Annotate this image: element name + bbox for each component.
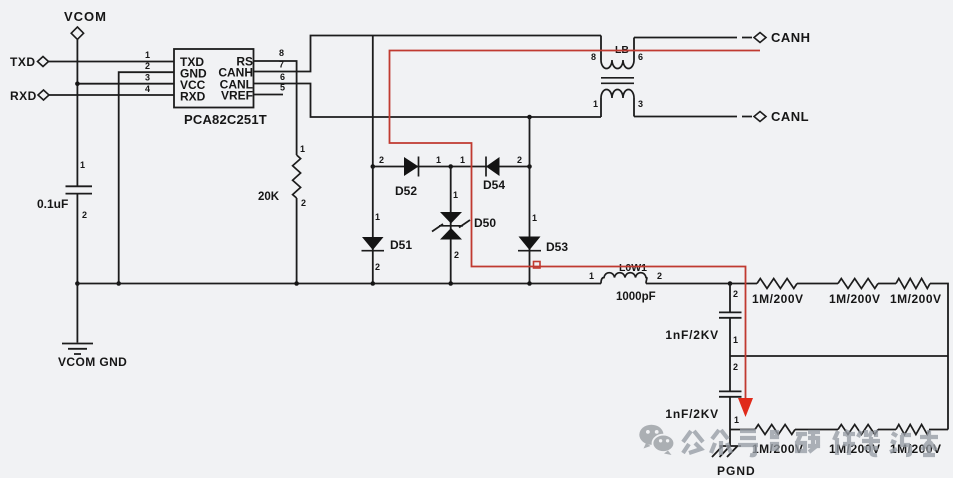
- pin number 2: [145, 61, 150, 71]
- resistor R4 value 1M/200V: [890, 292, 942, 306]
- svg-text:4: 4: [145, 84, 150, 94]
- svg-text:VREF: VREF: [221, 89, 253, 103]
- wire D53 branch: [529, 117, 531, 284]
- pin number 2 of C3: [733, 362, 738, 372]
- wire bottom rail R5-R6: [795, 429, 838, 431]
- svg-text:1: 1: [80, 160, 85, 170]
- svg-text:8: 8: [591, 52, 596, 62]
- pin number 1 of D51: [375, 212, 380, 222]
- svg-text:RXD: RXD: [180, 90, 206, 104]
- node CANL terminal diamond: [754, 112, 766, 122]
- junction D51 rail: [371, 281, 376, 286]
- svg-text:VCOM: VCOM: [64, 9, 107, 24]
- capacitor C3 value 1nF/2KV: [665, 407, 719, 421]
- node TXD label: [10, 55, 36, 69]
- svg-text:1: 1: [593, 99, 598, 109]
- wire middle rail: [730, 355, 948, 357]
- transformer T1 label LB: [615, 44, 629, 56]
- svg-text:0.1uF: 0.1uF: [37, 197, 68, 211]
- pin number 6: [280, 72, 285, 82]
- wire diode row: [373, 166, 530, 168]
- ground VCOM GND symbol: [62, 284, 93, 355]
- svg-text:2: 2: [517, 155, 522, 165]
- wire VREF stub: [254, 94, 284, 96]
- svg-text:2: 2: [379, 155, 384, 165]
- pin number 1 of T1: [593, 99, 598, 109]
- svg-text:1: 1: [300, 144, 305, 154]
- watermark wechat icon: [639, 425, 674, 455]
- resistor R4 top row third: [896, 279, 930, 289]
- node VCOM label: [64, 9, 107, 24]
- ground label VCOM GND: [58, 355, 127, 369]
- junction C1 rail: [75, 281, 80, 286]
- capacitor C3 1nF/2KV bottom: [719, 356, 742, 430]
- svg-text:1nF/2KV: 1nF/2KV: [665, 407, 719, 421]
- wire rail to right edge vertical: [930, 284, 948, 430]
- pin number 2 of R1: [301, 198, 306, 208]
- pin number 1 of D50: [453, 190, 458, 200]
- resistor R1 20K zigzag: [293, 155, 301, 198]
- svg-text:1: 1: [375, 212, 380, 222]
- ground PGND label: [717, 464, 756, 478]
- pin name VCC: [180, 78, 206, 92]
- pin number 4: [145, 84, 150, 94]
- svg-text:2: 2: [454, 250, 459, 260]
- node RXD terminal diamond: [38, 90, 49, 100]
- pin name RXD: [180, 90, 206, 104]
- resistor R5 bottom row first: [755, 425, 795, 435]
- svg-text:D54: D54: [483, 178, 505, 192]
- capacitor C2 1nF/2KV top: [719, 284, 742, 357]
- pin number 1: [145, 50, 150, 60]
- transformer T1 core: [601, 78, 634, 84]
- pin name CANL: [220, 78, 253, 92]
- pin name CANH: [218, 66, 253, 80]
- wire RS pin to resistor: [254, 61, 297, 155]
- wire VCOM vertical to VCC junction and cap: [76, 39, 78, 186]
- pin number 1 of D53: [532, 213, 537, 223]
- wire to CANH terminal: [634, 37, 752, 39]
- red arrow head: [738, 398, 753, 417]
- svg-text:2: 2: [733, 362, 738, 372]
- junction VCC/VCOM: [75, 81, 80, 86]
- pin number 1 of R1: [300, 144, 305, 154]
- wire rail choke to cap column: [646, 283, 757, 285]
- svg-text:1: 1: [145, 50, 150, 60]
- svg-text:6: 6: [280, 72, 285, 82]
- capacitor C1 value 0.1uF: [37, 197, 68, 211]
- svg-text:L0W1: L0W1: [619, 262, 647, 274]
- resistor R5 value 1M/200V: [752, 442, 804, 456]
- transformer T1 secondary bottom winding: [601, 90, 634, 117]
- wire bottom rail left: [730, 429, 755, 431]
- junction diode row left: [371, 164, 376, 169]
- resistor R6 bottom row second: [838, 425, 878, 435]
- node RXD label: [10, 89, 37, 103]
- inductor L1 value 1000pF: [616, 291, 656, 303]
- svg-text:CANL: CANL: [771, 109, 809, 124]
- pin name GND: [180, 67, 207, 81]
- svg-text:2: 2: [145, 61, 150, 71]
- diode D51: [362, 237, 385, 251]
- svg-text:8: 8: [279, 48, 284, 58]
- svg-text:TXD: TXD: [10, 55, 36, 69]
- wire D51 branch: [372, 167, 374, 284]
- pin name VREF: [221, 89, 253, 103]
- pin number 1 of C1: [80, 160, 85, 170]
- watermark wechat icon eyes: [646, 430, 669, 442]
- resistor R2 value 1M/200V: [752, 292, 804, 306]
- resistor R2 top row first: [757, 279, 797, 289]
- wire ground rail: [77, 283, 601, 285]
- svg-text:PCA82C251T: PCA82C251T: [184, 112, 267, 127]
- wire bottom rail R6-R7: [878, 429, 896, 431]
- node CANH label: [771, 30, 811, 45]
- pin number 3: [145, 73, 150, 83]
- svg-text:1000pF: 1000pF: [616, 291, 656, 303]
- resistor R1 20K value: [258, 191, 280, 203]
- inductor L1 choke on rail: [601, 273, 647, 284]
- svg-text:D50: D50: [474, 216, 496, 230]
- wire red highlight path: [390, 51, 761, 401]
- wire TXD to IC pin 1: [49, 61, 175, 63]
- svg-text:1M/200V: 1M/200V: [829, 292, 881, 306]
- resistor R3 top row second: [838, 279, 878, 289]
- IC label PCA82C251T: [184, 112, 267, 127]
- op-amp U1 PCA82C251T IC box: [174, 49, 254, 108]
- svg-text:PGND: PGND: [717, 464, 756, 478]
- svg-text:2: 2: [657, 271, 662, 281]
- svg-text:CANH: CANH: [771, 30, 811, 45]
- pin number 2 of D50: [454, 250, 459, 260]
- svg-text:1: 1: [589, 271, 594, 281]
- pin number 2 of C1: [82, 210, 87, 220]
- wire GND pin 2 to ground rail: [119, 72, 174, 283]
- junction diode row center: [448, 164, 453, 169]
- junction D50 rail: [448, 281, 453, 286]
- svg-text:D52: D52: [395, 184, 417, 198]
- svg-text:6: 6: [638, 52, 643, 62]
- pin number 2 of L1: [657, 271, 662, 281]
- wire C1 bottom to rail: [76, 194, 78, 284]
- capacitor C1 0.1uF plates: [66, 186, 93, 193]
- node TXD terminal diamond: [38, 57, 49, 67]
- wire CANH branch down to diode row: [372, 36, 374, 167]
- pin number 1 of D54: [460, 155, 465, 165]
- pin number 2 of D52: [379, 155, 384, 165]
- pin number 7: [279, 60, 284, 70]
- svg-text:1M/200V: 1M/200V: [752, 292, 804, 306]
- wire RXD to IC pin 4: [49, 94, 174, 96]
- resistor R3 value 1M/200V: [829, 292, 881, 306]
- pin number 1 of L1: [589, 271, 594, 281]
- svg-text:1: 1: [453, 190, 458, 200]
- capacitor C2 value 1nF/2KV: [665, 328, 719, 342]
- diode D52 label: [395, 184, 417, 198]
- pin number 1 of D52: [436, 155, 441, 165]
- wire CANH pin to top bus: [254, 36, 602, 72]
- pin number 2 of D51: [375, 262, 380, 272]
- svg-text:D51: D51: [390, 238, 412, 252]
- diode D54: [486, 157, 500, 177]
- pin name RS: [236, 55, 253, 69]
- resistor R7 value 1M/200V: [890, 442, 942, 456]
- diode D54 label: [483, 178, 505, 192]
- svg-text:20K: 20K: [258, 191, 280, 203]
- diode D52: [404, 157, 419, 177]
- TVS diode D50: [432, 212, 470, 240]
- junction R1 rail: [294, 281, 299, 286]
- junction D53 rail: [527, 281, 532, 286]
- pin number 3 of T1: [638, 99, 643, 109]
- wire R1 bottom to rail: [296, 198, 298, 284]
- junction GND-pin rail: [116, 281, 121, 286]
- svg-text:RXD: RXD: [10, 89, 37, 103]
- pin number 5: [280, 83, 285, 93]
- diode D53: [518, 237, 541, 251]
- node CANH terminal diamond: [754, 33, 766, 43]
- wire TVS branch: [450, 167, 452, 284]
- svg-text:D53: D53: [546, 240, 568, 254]
- diode D51 label: [390, 238, 412, 252]
- node red marker 0: [534, 262, 541, 269]
- watermark text strokes: [683, 430, 938, 455]
- svg-text:1: 1: [532, 213, 537, 223]
- svg-text:1: 1: [734, 415, 739, 425]
- svg-text:2: 2: [301, 198, 306, 208]
- svg-text:2: 2: [82, 210, 87, 220]
- resistor R7 bottom row third: [896, 425, 930, 435]
- wire CANL pin to transformer: [254, 84, 602, 118]
- TVS D50 label: [474, 216, 496, 230]
- wire to CANL terminal: [634, 116, 752, 118]
- svg-text:3: 3: [145, 73, 150, 83]
- svg-text:1nF/2KV: 1nF/2KV: [665, 328, 719, 342]
- resistor R6 value 1M/200V: [829, 442, 881, 456]
- pin number 2 of D54: [517, 155, 522, 165]
- svg-text:1: 1: [436, 155, 441, 165]
- svg-text:3: 3: [638, 99, 643, 109]
- node VCOM terminal diamond: [71, 27, 83, 39]
- pin number 1 of C2: [733, 335, 738, 345]
- svg-text:2: 2: [375, 262, 380, 272]
- diode D53 label: [546, 240, 568, 254]
- pin number 8 of T1: [591, 52, 596, 62]
- svg-text:1: 1: [460, 155, 465, 165]
- wire rail R3-R4: [878, 283, 896, 285]
- wire bottom rail right: [929, 429, 948, 431]
- svg-text:1M/200V: 1M/200V: [890, 292, 942, 306]
- pin number 2 of C2: [733, 289, 738, 299]
- svg-text:1: 1: [733, 335, 738, 345]
- wire VCC pin 3 to VCOM line: [77, 83, 174, 85]
- junction diode row right: [527, 164, 532, 169]
- transformer T1 primary top winding: [601, 36, 634, 69]
- pin number 6 of T1: [638, 52, 643, 62]
- node CANL label: [771, 109, 809, 124]
- junction CANL wire right branch: [527, 115, 532, 120]
- svg-text:2: 2: [733, 289, 738, 299]
- junction rail cap column: [728, 281, 733, 286]
- ground PGND symbol: [712, 430, 741, 458]
- svg-text:VCOM GND: VCOM GND: [58, 355, 127, 369]
- pin number 1 of C3: [734, 415, 739, 425]
- inductor L1 name L0W1: [619, 262, 647, 274]
- pin name TXD: [180, 55, 204, 69]
- pin number 8: [279, 48, 284, 58]
- wire rail R2-R3: [797, 283, 838, 285]
